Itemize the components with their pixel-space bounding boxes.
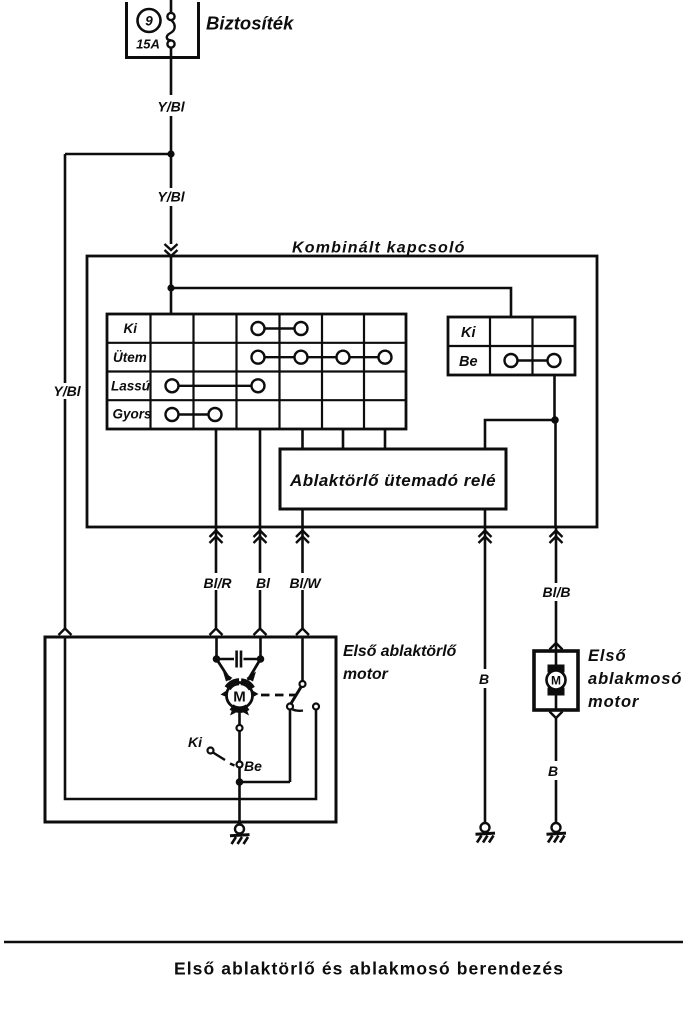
wire washer to ground [555,718,558,823]
wire Bl to capacitor node [259,637,262,659]
connector chevron left rail [59,629,72,636]
wire to washer switch [171,288,511,317]
svg-text:B: B [479,671,489,687]
svg-text:Be: Be [244,758,262,774]
connector chevron Bl motor [254,629,267,636]
connector chevrons B [479,531,492,544]
wire battery feed top [170,0,173,14]
park switch arm tail [293,710,304,711]
svg-text:Ki: Ki [124,321,138,336]
wire Bl/R [215,527,218,628]
wire left rail Y/Bl [64,154,67,383]
switch contacts row Lassú [166,379,265,392]
connector chevron washer top [550,643,563,650]
connector chevron washer bottom [550,712,563,719]
wire to motor brush left [217,659,231,680]
connector chevron main feed [165,244,178,256]
connector chevrons Bl/R [210,531,223,544]
wire to motor brush right [248,659,261,680]
washer switch table [448,317,575,375]
connector chevron Bl/W motor [296,629,309,636]
wiper motor box [45,637,336,822]
park switch contact right [313,704,319,710]
bottom rule [4,941,683,944]
node junction A [167,150,174,157]
node junction washer [551,416,559,424]
svg-text:Be: Be [459,354,478,370]
switch contact Ki [208,748,214,754]
wire B left [484,527,487,823]
switch contacts row Be [505,354,561,367]
connector chevrons Bl/W [296,531,309,544]
svg-text:Első ablaktörlő és ablakmosó b: Első ablaktörlő és ablakmosó berendezés [174,959,564,979]
wire main feed [170,154,173,188]
wire table col3 down [259,429,262,527]
wiper relay box [280,449,506,509]
switch contacts row Gyors [166,408,222,421]
connector chevron Bl/R motor [210,629,223,636]
wire table col4 to relay [301,429,304,449]
fuse F9 box [127,2,199,58]
dashed link motor to park switch [261,694,296,697]
ground B left [476,823,496,843]
switch contacts row Ki [252,322,308,335]
fuse element [167,13,175,48]
switch contacts row Ütem [252,351,392,364]
svg-text:Ütem: Ütem [113,350,147,365]
park switch pivot [300,681,306,687]
svg-text:ablakmosó: ablakmosó [588,670,682,688]
connector chevrons Bl [254,531,267,544]
wire washer switch down [553,375,556,420]
svg-text:Ki: Ki [188,734,203,750]
switch table main [107,314,406,429]
wire junction to left rail [65,153,171,156]
motor M2 washer [547,651,566,710]
wire washer junction to relay [485,420,555,449]
svg-text:Ablaktörlő ütemadó relé: Ablaktörlő ütemadó relé [289,471,496,490]
wire Bl/W to park switch [301,637,304,681]
wire table col6 to relay [384,429,387,449]
terminal circle [237,725,243,731]
svg-text:Biztosíték: Biztosíték [206,13,295,34]
svg-text:Első ablaktörlő: Első ablaktörlő [343,643,458,660]
svg-text:motor: motor [588,693,640,711]
wire relay out B [484,509,487,527]
wire Bl/W [301,527,304,628]
wire junction to park wire [240,781,291,784]
ground motor [230,825,250,845]
washer motor box [534,651,578,710]
wire Bl/R to capacitor node [215,637,218,659]
svg-text:Bl/W: Bl/W [289,575,322,591]
svg-text:B: B [548,763,558,779]
svg-text:Y/Bl: Y/Bl [157,99,185,115]
wire feed inside box [170,256,173,314]
svg-text:Első: Első [588,647,626,665]
svg-text:Bl/R: Bl/R [204,575,233,591]
svg-text:Y/Bl: Y/Bl [157,189,185,205]
wire Be to junction [238,768,241,823]
svg-text:motor: motor [343,666,389,683]
wire left rail inside motor box [65,637,316,799]
svg-text:Ki: Ki [461,325,476,341]
capacitor C1 [217,651,261,668]
node capacitor left [213,655,221,663]
wire motor to Be terminal [238,709,241,725]
svg-text:Lassú: Lassú [111,379,151,394]
wire terminal to Be [238,731,241,762]
wire table col2 down [215,429,218,527]
switch arm Ki-Be [213,753,235,766]
combination switch box [87,256,597,527]
svg-text:Gyors: Gyors [113,407,153,422]
park switch arm [291,687,301,704]
svg-text:Bl: Bl [256,575,271,591]
wire relay out Bl/W [301,509,304,527]
wire table col5 to relay [342,429,345,449]
wire Bl/B in box [554,420,557,527]
wire Bl [259,527,262,628]
svg-text:Y/Bl: Y/Bl [53,383,81,399]
svg-text:Kombinált kapcsoló: Kombinált kapcsoló [292,240,466,257]
svg-text:15A: 15A [136,37,160,52]
node capacitor right [257,655,265,663]
svg-text:M: M [233,689,246,706]
svg-text:Bl/B: Bl/B [543,584,571,600]
svg-text:M: M [551,674,561,688]
fuse rating circle 9 [138,9,161,32]
node junction motor return [236,778,244,786]
node junction B [167,284,174,291]
connector chevrons Bl/B [550,531,563,544]
switch contact Be [237,762,243,768]
ground washer [547,823,567,843]
wire fuse to junction [170,48,173,96]
svg-text:9: 9 [145,14,153,29]
wire park contact down [289,710,292,783]
park switch contact left [287,704,293,710]
motor M1 wiper [221,672,259,716]
wire Bl/B [555,527,558,651]
